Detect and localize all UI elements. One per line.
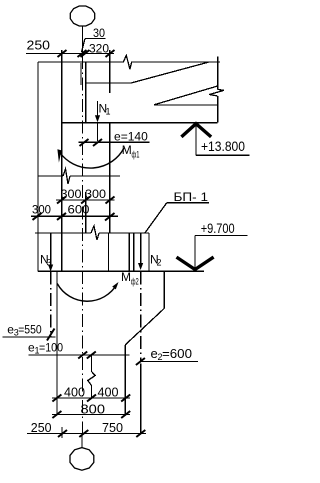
svg-text:750: 750 bbox=[102, 420, 123, 435]
svg-text:=100: =100 bbox=[39, 341, 63, 355]
svg-text:M: M bbox=[121, 270, 131, 284]
svg-text:=600: =600 bbox=[162, 346, 192, 361]
svg-text:800: 800 bbox=[81, 402, 106, 417]
svg-text:e=140: e=140 bbox=[114, 130, 148, 144]
svg-text:+9.700: +9.700 bbox=[201, 220, 235, 236]
svg-text:3: 3 bbox=[47, 258, 52, 268]
svg-text:1: 1 bbox=[106, 107, 111, 117]
svg-text:400: 400 bbox=[98, 385, 119, 400]
svg-text:ф1: ф1 bbox=[132, 150, 140, 160]
svg-text:M: M bbox=[122, 143, 132, 157]
svg-text:400: 400 bbox=[64, 385, 85, 400]
svg-text:2: 2 bbox=[157, 258, 162, 268]
svg-text:300: 300 bbox=[61, 187, 82, 201]
svg-text:ф2: ф2 bbox=[131, 277, 139, 287]
svg-text:600: 600 bbox=[68, 203, 90, 217]
svg-text:250: 250 bbox=[27, 38, 51, 53]
svg-text:30: 30 bbox=[93, 26, 105, 40]
svg-text:300: 300 bbox=[32, 203, 51, 217]
svg-text:250: 250 bbox=[31, 420, 52, 435]
svg-text:300: 300 bbox=[85, 187, 106, 201]
svg-text:+13.800: +13.800 bbox=[201, 138, 245, 154]
svg-text:320: 320 bbox=[89, 41, 109, 55]
svg-text:=550: =550 bbox=[18, 323, 42, 337]
svg-text:БП- 1: БП- 1 bbox=[174, 190, 209, 204]
